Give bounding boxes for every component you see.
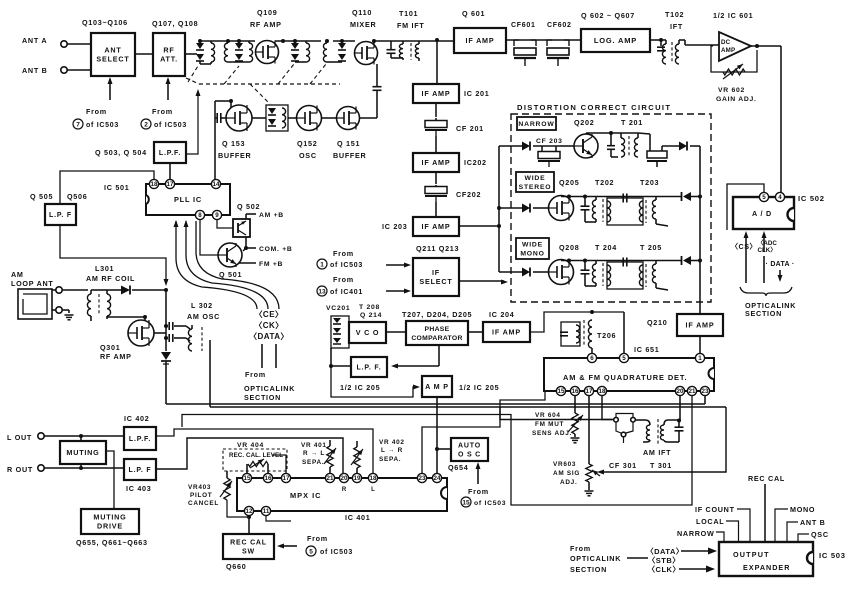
svg-text:Q107, Q108: Q107, Q108 bbox=[152, 19, 198, 28]
svg-text:L OUT: L OUT bbox=[7, 433, 32, 442]
svg-text:OUTPUT: OUTPUT bbox=[733, 550, 770, 559]
svg-text:20: 20 bbox=[677, 388, 684, 395]
svg-text:14: 14 bbox=[213, 181, 220, 188]
svg-text:5: 5 bbox=[622, 355, 626, 362]
svg-text:18: 18 bbox=[151, 181, 158, 188]
svg-text:IF AMP: IF AMP bbox=[466, 36, 495, 45]
svg-text:COM. +B: COM. +B bbox=[259, 246, 293, 253]
svg-text:of IC503: of IC503 bbox=[330, 262, 363, 269]
svg-text:VR 604: VR 604 bbox=[535, 412, 561, 419]
svg-text:NARROW: NARROW bbox=[677, 529, 714, 538]
svg-text:T 201: T 201 bbox=[621, 118, 643, 127]
svg-text:T207, D204, D205: T207, D204, D205 bbox=[402, 310, 472, 319]
svg-text:From: From bbox=[307, 534, 328, 543]
svg-text:Q152: Q152 bbox=[297, 139, 317, 148]
svg-text:LOG. AMP: LOG. AMP bbox=[594, 36, 637, 45]
svg-text:17: 17 bbox=[586, 388, 593, 395]
svg-text:REC CAL: REC CAL bbox=[230, 539, 267, 546]
svg-text:17: 17 bbox=[283, 475, 290, 482]
svg-text:SW: SW bbox=[242, 549, 255, 556]
svg-text:GAIN ADJ.: GAIN ADJ. bbox=[716, 96, 757, 103]
svg-text:Q 502: Q 502 bbox=[237, 202, 260, 211]
svg-text:RF AMP: RF AMP bbox=[250, 20, 282, 29]
svg-text:8: 8 bbox=[198, 212, 202, 219]
svg-text:Q202: Q202 bbox=[574, 118, 594, 127]
svg-text:PHASE: PHASE bbox=[425, 326, 450, 333]
svg-text:FM MUT: FM MUT bbox=[535, 421, 564, 428]
svg-text:Q660: Q660 bbox=[226, 562, 246, 571]
svg-text:〈CK〉: 〈CK〉 bbox=[254, 320, 284, 330]
svg-text:From: From bbox=[333, 249, 354, 258]
svg-text:FM IFT: FM IFT bbox=[397, 21, 424, 30]
svg-text:ANT B: ANT B bbox=[800, 518, 826, 527]
svg-text:23: 23 bbox=[419, 475, 426, 482]
svg-text:12: 12 bbox=[246, 508, 253, 515]
svg-text:Q655, Q661~Q663: Q655, Q661~Q663 bbox=[76, 538, 148, 547]
svg-text:5: 5 bbox=[762, 194, 766, 201]
svg-text:Q506: Q506 bbox=[67, 192, 87, 201]
svg-text:VR 602: VR 602 bbox=[718, 87, 745, 94]
svg-text:PLL IC: PLL IC bbox=[174, 195, 202, 204]
svg-text:AM: AM bbox=[11, 270, 24, 279]
svg-text:T 204: T 204 bbox=[595, 243, 617, 252]
svg-text:Q 501: Q 501 bbox=[219, 270, 242, 279]
svg-text:IF AMP: IF AMP bbox=[492, 328, 521, 337]
svg-text:21: 21 bbox=[327, 475, 334, 482]
svg-text:VR403: VR403 bbox=[188, 484, 211, 491]
svg-text:ADJ.: ADJ. bbox=[560, 479, 577, 486]
svg-text:4: 4 bbox=[778, 194, 782, 201]
svg-text:Q 602 ~ Q607: Q 602 ~ Q607 bbox=[581, 11, 635, 20]
svg-text:〈CE〉: 〈CE〉 bbox=[254, 309, 283, 319]
svg-text:AM OSC: AM OSC bbox=[187, 312, 220, 321]
svg-text:L.P.F.: L.P.F. bbox=[159, 150, 181, 157]
svg-text:BUFFER: BUFFER bbox=[218, 151, 252, 160]
svg-text:of IC503: of IC503 bbox=[154, 122, 187, 129]
svg-text:MPX IC: MPX IC bbox=[290, 491, 321, 500]
svg-text:IC 503: IC 503 bbox=[819, 551, 846, 560]
svg-text:9: 9 bbox=[215, 212, 219, 219]
svg-text:IC 401: IC 401 bbox=[345, 513, 371, 522]
svg-text:VR 402: VR 402 bbox=[379, 439, 405, 446]
svg-text:MIXER: MIXER bbox=[350, 20, 376, 29]
svg-text:L.P. F: L.P. F bbox=[129, 467, 152, 474]
svg-text:OPTICALINK: OPTICALINK bbox=[244, 384, 295, 393]
svg-text:〈DATA〉: 〈DATA〉 bbox=[646, 546, 684, 556]
svg-text:IC 402: IC 402 bbox=[124, 414, 150, 423]
svg-text:6: 6 bbox=[590, 355, 594, 362]
svg-text:SELECT: SELECT bbox=[419, 277, 452, 286]
svg-text:From: From bbox=[86, 107, 107, 116]
svg-text:of IC401: of IC401 bbox=[330, 289, 363, 296]
svg-text:SELECT: SELECT bbox=[96, 55, 129, 64]
svg-text:〈ADC: 〈ADC bbox=[757, 239, 777, 247]
svg-text:IF: IF bbox=[432, 268, 440, 277]
svg-text:T 301: T 301 bbox=[650, 461, 672, 470]
svg-text:Q 505: Q 505 bbox=[30, 192, 53, 201]
svg-text:L301: L301 bbox=[95, 264, 114, 273]
svg-text:15: 15 bbox=[558, 388, 565, 395]
svg-text:CF602: CF602 bbox=[547, 22, 572, 29]
svg-text:L: L bbox=[371, 487, 375, 493]
svg-text:IF AMP: IF AMP bbox=[686, 321, 715, 330]
svg-text:DRIVE: DRIVE bbox=[97, 522, 123, 531]
svg-text:From: From bbox=[245, 370, 266, 379]
svg-text:L.P.F.: L.P.F. bbox=[129, 436, 151, 443]
svg-text:SECTION: SECTION bbox=[745, 309, 782, 318]
svg-text:VR603: VR603 bbox=[553, 461, 576, 468]
svg-text:AUTO: AUTO bbox=[458, 442, 481, 449]
svg-text:MUTING: MUTING bbox=[66, 448, 99, 457]
svg-text:REC CAL: REC CAL bbox=[748, 474, 785, 483]
svg-text:16: 16 bbox=[572, 388, 579, 395]
svg-text:FM +B: FM +B bbox=[259, 261, 283, 268]
svg-text:Q301: Q301 bbox=[100, 343, 120, 352]
svg-text:7: 7 bbox=[76, 121, 80, 128]
svg-text:T202: T202 bbox=[595, 178, 614, 187]
svg-text:MONO: MONO bbox=[790, 505, 815, 514]
svg-text:VR 401: VR 401 bbox=[301, 442, 327, 449]
svg-text:From: From bbox=[468, 487, 489, 496]
svg-text:17: 17 bbox=[167, 181, 174, 188]
svg-text:CLK〉: CLK〉 bbox=[758, 246, 777, 254]
svg-text:of IC503: of IC503 bbox=[86, 122, 119, 129]
svg-text:OPTICALINK: OPTICALINK bbox=[570, 554, 621, 563]
svg-text:Q 153: Q 153 bbox=[222, 139, 245, 148]
svg-text:IFT: IFT bbox=[670, 22, 683, 31]
svg-text:CANCEL: CANCEL bbox=[188, 500, 219, 507]
svg-text:IC 201: IC 201 bbox=[464, 89, 490, 98]
svg-text:IC 651: IC 651 bbox=[634, 345, 660, 354]
svg-text:Q 151: Q 151 bbox=[337, 139, 360, 148]
svg-text:IF AMP: IF AMP bbox=[422, 158, 451, 167]
svg-text:of IC503: of IC503 bbox=[474, 500, 506, 507]
svg-text:R OUT: R OUT bbox=[7, 465, 33, 474]
svg-text:AM RF COIL: AM RF COIL bbox=[86, 274, 135, 283]
svg-text:Q654: Q654 bbox=[448, 463, 468, 472]
svg-text:R: R bbox=[342, 487, 347, 493]
svg-text:CF 203: CF 203 bbox=[536, 138, 563, 145]
svg-text:13: 13 bbox=[318, 288, 326, 295]
svg-text:IC 204: IC 204 bbox=[489, 310, 515, 319]
svg-text:of IC503: of IC503 bbox=[320, 549, 353, 556]
svg-text:LOOP ANT: LOOP ANT bbox=[11, 279, 54, 288]
svg-text:DC: DC bbox=[721, 39, 731, 46]
svg-text:A / D: A / D bbox=[752, 209, 772, 218]
svg-text:〈CS〉: 〈CS〉 bbox=[731, 242, 757, 251]
svg-text:T102: T102 bbox=[665, 10, 684, 19]
svg-text:IF AMP: IF AMP bbox=[422, 89, 451, 98]
svg-text:CF202: CF202 bbox=[456, 190, 481, 199]
svg-text:WIDE: WIDE bbox=[525, 175, 546, 182]
svg-text:A M P: A M P bbox=[425, 382, 449, 391]
svg-text:RF: RF bbox=[163, 45, 174, 54]
svg-text:IC 502: IC 502 bbox=[798, 194, 825, 203]
svg-text:AM +B: AM +B bbox=[259, 212, 284, 219]
svg-text:1: 1 bbox=[698, 355, 702, 362]
svg-text:Q 214: Q 214 bbox=[360, 312, 382, 319]
svg-text:VR 404: VR 404 bbox=[237, 442, 264, 449]
svg-text:20: 20 bbox=[341, 475, 348, 482]
svg-text:SEPA.: SEPA. bbox=[302, 459, 324, 466]
svg-text:2: 2 bbox=[144, 121, 148, 128]
svg-text:L.P. F: L.P. F bbox=[49, 212, 72, 219]
svg-text:23: 23 bbox=[702, 388, 709, 395]
svg-text:IC 501: IC 501 bbox=[104, 183, 130, 192]
svg-text:From: From bbox=[570, 544, 591, 553]
svg-text:T 208: T 208 bbox=[359, 304, 380, 311]
svg-text:18: 18 bbox=[370, 475, 377, 482]
svg-text:IC 203: IC 203 bbox=[382, 222, 408, 231]
svg-text:19: 19 bbox=[354, 475, 361, 482]
svg-text:〈STB〉: 〈STB〉 bbox=[648, 555, 681, 565]
svg-text:AM SIG: AM SIG bbox=[553, 470, 580, 477]
svg-text:QSC: QSC bbox=[811, 530, 829, 539]
svg-text:IF AMP: IF AMP bbox=[422, 222, 451, 231]
svg-text:SECTION: SECTION bbox=[570, 565, 607, 574]
svg-text:Q211 Q213: Q211 Q213 bbox=[416, 244, 459, 253]
svg-text:DISTORTION CORRECT CIRCUIT: DISTORTION CORRECT CIRCUIT bbox=[517, 103, 671, 112]
svg-text:IF COUNT: IF COUNT bbox=[695, 505, 735, 514]
svg-text:From: From bbox=[152, 107, 173, 116]
svg-text:1/2 IC 205: 1/2 IC 205 bbox=[459, 383, 499, 392]
svg-text:VC201: VC201 bbox=[326, 305, 350, 312]
svg-text:Q 503, Q 504: Q 503, Q 504 bbox=[95, 148, 147, 157]
svg-text:IC 403: IC 403 bbox=[126, 484, 152, 493]
svg-text:BUFFER: BUFFER bbox=[333, 151, 367, 160]
svg-text:5: 5 bbox=[309, 548, 313, 555]
svg-text:L 302: L 302 bbox=[191, 301, 213, 310]
svg-text:24: 24 bbox=[434, 475, 441, 482]
svg-text:SECTION: SECTION bbox=[244, 393, 281, 402]
svg-text:MONO: MONO bbox=[520, 250, 544, 257]
svg-text:CF 201: CF 201 bbox=[456, 124, 484, 133]
svg-text:CF601: CF601 bbox=[511, 22, 536, 29]
svg-text:Q109: Q109 bbox=[257, 8, 277, 17]
svg-text:ANT A: ANT A bbox=[22, 36, 47, 45]
svg-text:SEPA.: SEPA. bbox=[379, 456, 401, 463]
svg-text:NARROW: NARROW bbox=[518, 121, 554, 128]
svg-text:SENS ADJ.: SENS ADJ. bbox=[532, 430, 572, 437]
svg-text:T206: T206 bbox=[597, 331, 616, 340]
svg-text:RF AMP: RF AMP bbox=[100, 352, 132, 361]
svg-text:ANT B: ANT B bbox=[22, 66, 48, 75]
svg-text:1: 1 bbox=[320, 261, 324, 268]
svg-text:T 205: T 205 bbox=[640, 243, 662, 252]
svg-text:Q205: Q205 bbox=[559, 178, 579, 187]
svg-text:REC. CAL. LEVEL: REC. CAL. LEVEL bbox=[229, 452, 283, 459]
svg-text:· DATA ·: · DATA · bbox=[765, 261, 794, 268]
svg-text:15: 15 bbox=[462, 499, 470, 506]
svg-text:EXPANDER: EXPANDER bbox=[743, 563, 790, 572]
svg-text:COMPARATOR: COMPARATOR bbox=[411, 335, 462, 342]
svg-text:From: From bbox=[333, 275, 354, 284]
svg-text:1/2 IC 601: 1/2 IC 601 bbox=[713, 11, 753, 20]
svg-text:T101: T101 bbox=[399, 9, 418, 18]
svg-text:Q210: Q210 bbox=[647, 318, 667, 327]
svg-text:〈CLK〉: 〈CLK〉 bbox=[648, 564, 681, 574]
svg-text:L.P. F.: L.P. F. bbox=[357, 364, 382, 371]
svg-text:R → L: R → L bbox=[303, 450, 325, 457]
svg-text:15: 15 bbox=[244, 475, 251, 482]
svg-text:Q 601: Q 601 bbox=[462, 9, 485, 18]
svg-text:V C O: V C O bbox=[356, 328, 380, 337]
svg-text:IC202: IC202 bbox=[464, 158, 487, 167]
svg-text:16: 16 bbox=[265, 475, 272, 482]
svg-text:CF 301: CF 301 bbox=[609, 461, 637, 470]
svg-text:OSC: OSC bbox=[299, 151, 317, 160]
svg-text:WIDE: WIDE bbox=[522, 241, 543, 248]
svg-text:AM IFT: AM IFT bbox=[643, 448, 671, 457]
svg-text:ATT.: ATT. bbox=[160, 55, 178, 64]
svg-text:AMP: AMP bbox=[721, 47, 735, 54]
svg-text:MUTING: MUTING bbox=[93, 512, 126, 521]
svg-text:ANT: ANT bbox=[104, 45, 121, 54]
svg-text:Q110: Q110 bbox=[352, 8, 372, 17]
svg-text:STEREO: STEREO bbox=[519, 184, 552, 191]
svg-text:PILOT: PILOT bbox=[190, 492, 212, 499]
svg-text:11: 11 bbox=[263, 508, 270, 515]
svg-text:AM & FM QUADRATURE DET.: AM & FM QUADRATURE DET. bbox=[563, 373, 687, 382]
svg-text:T203: T203 bbox=[640, 178, 659, 187]
svg-text:21: 21 bbox=[689, 388, 696, 395]
svg-text:LOCAL: LOCAL bbox=[696, 517, 724, 526]
svg-text:O S C: O S C bbox=[458, 452, 481, 459]
svg-text:18: 18 bbox=[599, 388, 606, 395]
svg-text:1/2 IC 205: 1/2 IC 205 bbox=[340, 383, 380, 392]
svg-text:〈DATA〉: 〈DATA〉 bbox=[249, 331, 289, 341]
svg-text:L → R: L → R bbox=[381, 447, 403, 454]
svg-text:Q208: Q208 bbox=[559, 243, 579, 252]
svg-text:Q103~Q106: Q103~Q106 bbox=[82, 18, 128, 27]
